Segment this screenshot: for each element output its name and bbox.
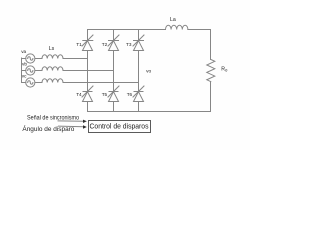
wire right side lower (210, 82, 212, 112)
source va (26, 54, 35, 63)
svg-text:T5: T5 (102, 92, 108, 97)
wire phase c to bridge (63, 82, 139, 84)
svg-text:va: va (21, 49, 26, 54)
wire phase b to bridge (63, 70, 114, 72)
wire phase b to Ls (35, 70, 42, 72)
svg-text:vo: vo (146, 70, 151, 75)
arrowhead firing angle (83, 125, 87, 128)
thyristor T5 (108, 86, 119, 112)
inductor Ls phase b (42, 67, 63, 71)
wire phase c to Ls (35, 82, 42, 84)
svg-text:Ls: Ls (49, 46, 55, 52)
wire column b mid (113, 51, 115, 92)
inductor La (166, 25, 188, 29)
thyristor T2 (108, 30, 119, 51)
inductor Ls phase c (42, 79, 63, 83)
svg-text:T1: T1 (76, 42, 82, 47)
thyristor T1 (82, 30, 93, 51)
wire bottom dc rail (88, 111, 211, 113)
source vc (26, 78, 35, 87)
wire right side upper (210, 30, 212, 60)
wire arrow firing angle (59, 125, 84, 128)
wire arrow sync signal (58, 120, 83, 122)
svg-text:T6: T6 (127, 92, 133, 97)
wire phase b stub (22, 70, 26, 72)
resistor Ro (207, 60, 215, 82)
wire column a mid (87, 51, 89, 92)
wire phase c stub (22, 82, 26, 84)
svg-text:vb: vb (22, 62, 27, 67)
source vb (26, 66, 35, 75)
svg-text:Ro: Ro (221, 66, 228, 72)
node N: left neutral bus wire (21, 58, 23, 83)
svg-text:La: La (170, 17, 176, 23)
svg-text:Ángulo de disparo: Ángulo de disparo (22, 124, 74, 133)
wire column c mid (138, 51, 140, 92)
wire top dc rail (88, 29, 166, 31)
svg-text:T2: T2 (102, 42, 108, 47)
wire phase a to bridge (63, 58, 88, 60)
wire top rail to right corner (188, 29, 211, 31)
wire phase a to Ls (35, 58, 42, 60)
thyristor T3 (133, 30, 144, 51)
control box: Control de disparos (89, 121, 151, 133)
svg-text:T4: T4 (76, 92, 82, 97)
svg-text:Control de disparos: Control de disparos (90, 124, 149, 131)
thyristor T4 (82, 86, 93, 112)
arrowhead sync signal (83, 120, 87, 123)
svg-text:T3: T3 (126, 42, 132, 47)
svg-text:vc: vc (22, 74, 27, 79)
svg-text:Señal de sincronismo: Señal de sincronismo (27, 114, 79, 121)
inductor Ls phase a (42, 55, 63, 59)
wire phase a stub (22, 58, 26, 60)
thyristor T6 (133, 86, 144, 112)
